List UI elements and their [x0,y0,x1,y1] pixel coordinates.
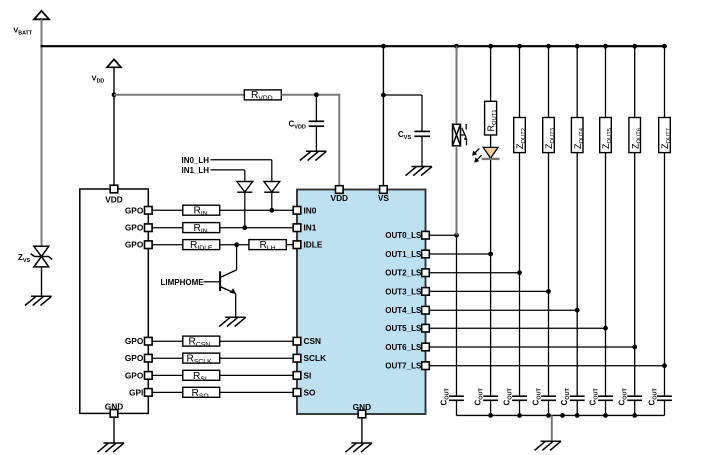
pin MCU VDD [110,185,118,193]
junction branch0 out [454,233,459,238]
lamp load (OUT0) [453,124,461,146]
pin IC IN0 [293,207,301,215]
LED light arrows [472,148,482,162]
pin MCU GPO y227 [145,224,153,232]
pin IC IDLE [293,241,301,249]
wire GPO to RSI [152,374,183,376]
resistor RVDD [244,90,281,100]
pin IC OUT3_LS [422,288,430,296]
svg-text:OUT5_LS: OUT5_LS [385,324,422,333]
svg-text:IDLE: IDLE [304,240,323,250]
junction CVDD tap [314,92,319,97]
resistor RIN y227 [183,223,220,233]
capacitor COUT0 [449,396,464,400]
svg-text:LIMPHOME: LIMPHOME [161,278,205,287]
junction IN1 row [242,225,247,230]
wire OUT0 to branch [429,234,456,236]
load ZOUT5 [600,118,612,153]
supply symbol VDD [107,59,121,67]
pin MCU GPO y341 [145,337,153,345]
transistor Q LIMPHOME [220,270,237,294]
wire branch2 mid [519,153,521,273]
svg-text:IN1_LH: IN1_LH [182,166,210,175]
wire branch1 mid [490,160,492,254]
pin IC OUT7_LS [422,362,430,370]
pin IC OUT5_LS [422,324,430,332]
resistor ROUT1 [485,101,497,135]
junction IDLE/transistor [234,242,239,247]
wire collector up [236,245,238,270]
wire MCU GND down [113,417,115,443]
capacitor CVS [421,95,423,131]
wire bus ground tap [551,415,553,441]
pin IC SO [293,389,301,397]
wire branch2 top [519,46,521,117]
svg-text:GPI: GPI [129,387,143,397]
wire branch6 to cap [634,347,636,396]
pin IC SCLK [293,354,301,362]
junction bottom bus [517,413,522,418]
wire GPO to RSCLK [152,357,183,359]
junction branch2 out [517,270,522,275]
wire GPO to RIN y210 [152,209,183,211]
svg-text:GPO: GPO [125,240,144,250]
wire OUT2 to branch [429,272,519,274]
wire GPO to RIDLE [152,244,183,246]
ground (MCU) [98,443,125,452]
ground (ZVS) [25,296,52,305]
wire D IN1 to IN1 row [244,192,246,228]
pin IC OUT1_LS [422,250,430,258]
svg-text:OUT1_LS: OUT1_LS [385,250,422,259]
wire branch4 top [576,46,578,117]
diode D IN0 [264,182,280,193]
ground (CVDD) [300,151,327,160]
svg-text:OUT4_LS: OUT4_LS [385,306,422,315]
svg-text:VS: VS [378,193,390,203]
svg-text:GND: GND [105,402,123,412]
junction bottom bus [632,413,637,418]
wire VDD down to MCU [113,95,115,186]
pin IC OUT0_LS [422,231,430,239]
pin MCU GPO y244 [145,241,153,249]
junction branch1 out [488,252,493,257]
junction bottom bus [575,413,580,418]
wire branch4 to cap [576,310,578,396]
wire D IN0 to IN0 row [271,192,273,210]
junction bus branch5 [603,44,608,49]
junction bus branch0 [454,44,459,49]
junction branch6 out [632,345,637,350]
wire top supply bus [41,45,667,47]
svg-text:VDD: VDD [105,195,123,205]
resistor RLH [249,240,286,250]
wire branch7 top [664,46,666,117]
svg-text:OUT0_LS: OUT0_LS [385,231,422,240]
junction branch4 out [575,308,580,313]
wire branch0 mid [456,146,458,235]
wire branch7 to cap [664,366,666,397]
wire branch3 to cap [548,291,550,396]
capacitor COUT3 [541,396,556,400]
svg-text:OUT2_LS: OUT2_LS [385,269,422,278]
wire emitter down [235,294,237,318]
junction IN0 row [269,208,274,213]
wire RLH to IC IDLE [286,244,293,246]
wire OUT6 to branch [429,346,634,348]
wire ZVS to ground [41,267,43,296]
svg-text:IN1: IN1 [304,223,317,233]
junction bottom bus gnd [560,413,565,418]
TVS diode ZVS [31,246,53,267]
wire ROUT1 to LED [490,135,492,147]
junction bus VS [381,44,386,49]
ground (Q) [219,317,246,326]
junction bottom bus [603,413,608,418]
svg-text:GPO: GPO [125,353,144,363]
wire OUT4 to branch [429,309,577,311]
lamp annotation arrow [461,124,467,145]
wire GPO to RSO [152,391,183,393]
wire IC GND down [361,418,363,443]
wire VDD arrow stem [113,67,115,95]
wire branch5 to cap [605,328,607,396]
capacitor COUT6 [627,396,642,400]
resistor RIN y210 [183,205,220,215]
svg-text:SCLK: SCLK [304,353,327,363]
svg-text:GPO: GPO [125,370,144,380]
resistor RSCLK [183,353,220,363]
wire branch0 top [456,46,458,124]
wire OUT1 to branch [429,253,490,255]
ground (IC) [345,443,372,452]
resistor RSO [183,387,220,397]
svg-text:OUT7_LS: OUT7_LS [385,362,422,371]
wire RIN to IC y210 [220,209,294,211]
resistor RIDLE [183,240,220,250]
pin MCU GPO y210 [145,207,153,215]
wire base [204,281,220,283]
capacitor COUT1 [483,396,498,400]
wire RIDLE to RLH [220,244,249,246]
IC U1 (driver) [297,190,426,415]
wire OUT3 to branch [429,290,548,292]
LED D OUT1 [483,147,498,158]
wire bottom bus [457,414,665,416]
ground (outputs) [535,441,562,450]
junction bottom bus [546,413,551,418]
wire RSI to IC [220,374,294,376]
junction bus branch7 [662,44,667,49]
junction bus branch2 [517,44,522,49]
junction bottom bus [488,413,493,418]
resistor RSI [183,370,220,380]
capacitor COUT4 [570,396,585,400]
svg-text:GND: GND [353,402,371,412]
wire RSCLK to IC [220,357,294,359]
wire branch5 top [605,46,607,117]
wire IN1_LH horiz [211,169,245,171]
wire VDD rail to RVDD [114,94,244,96]
load ZOUT6 [629,118,641,153]
svg-text:SO: SO [304,387,317,397]
wire branch0 to cap [456,235,458,396]
wire branch6 top [634,46,636,117]
svg-text:OUT3_LS: OUT3_LS [385,287,422,296]
wire GPO to RIN y227 [152,227,183,229]
junction bus branch6 [632,44,637,49]
wire branch6 mid [634,153,636,347]
diode D IN1 [237,182,253,193]
junction bus branch3 [546,44,551,49]
junction CVS tap [381,93,386,98]
wire branch4 mid [576,153,578,311]
wire OUT5 to branch [429,327,605,329]
svg-text:CSN: CSN [304,336,322,346]
junction branch7 out [662,363,667,368]
svg-text:SI: SI [304,370,312,380]
wire RVDD to IC VDD [281,95,339,186]
wire branch7 mid [664,153,666,366]
svg-text:IN0_LH: IN0_LH [182,156,210,165]
resistor RCSN [183,336,220,346]
junction bus branch1 [488,44,493,49]
pin IC OUT6_LS [422,343,430,351]
load ZOUT4 [571,118,583,153]
wire GPO to RCSN [152,340,183,342]
wire IN1_LH down [244,170,246,182]
wire CVS tap horiz [383,94,422,96]
microcontroller box [80,189,149,413]
svg-text:GPO: GPO [125,223,144,233]
pin IC VDD [336,186,344,194]
wire branch3 mid [548,153,550,292]
wire IN0_LH down [271,160,273,182]
svg-text:GPO: GPO [125,205,144,215]
wire VBATT vertical [41,19,43,247]
pin IC CSN [293,337,301,345]
pin MCU GPO y358 [145,354,153,362]
svg-text:IN0: IN0 [304,205,317,215]
wire RIN to IC y227 [220,227,294,229]
pin MCU GND [110,410,118,418]
ground (CVS) [406,167,433,176]
wire RSO to IC [220,391,294,393]
svg-text:OUT6_LS: OUT6_LS [385,343,422,352]
pin IC IN1 [293,224,301,232]
capacitor COUT7 [657,396,672,400]
wire OUT7 to branch [429,365,664,367]
svg-text:VDD: VDD [331,193,349,203]
capacitor COUT2 [512,396,527,400]
pin IC VS [380,186,388,194]
pin IC GND [358,410,366,418]
pin IC SI [293,372,301,380]
capacitor CVDD [315,95,317,121]
wire RCSN to IC [220,340,294,342]
wire branch3 top [548,46,550,117]
capacitor COUT5 [598,396,613,400]
wire IN0_LH horiz [211,159,272,161]
wire branch1 to cap [490,254,492,396]
supply symbol VBATT [34,11,49,19]
wire VS from bus [382,46,384,185]
load ZOUT3 [543,118,555,153]
junction branch3 out [546,289,551,294]
load ZOUT7 [659,118,671,153]
junction branch5 out [603,326,608,331]
pin MCU GPO y375 [145,372,153,380]
junction bus branch4 [575,44,580,49]
pin MCU GPI y392 [145,389,153,397]
pin IC OUT2_LS [422,269,430,277]
load ZOUT2 [514,118,526,153]
pin IC OUT4_LS [422,306,430,314]
wire branch1 top [490,46,492,101]
wire branch5 mid [605,153,607,329]
wire branch2 to cap [519,273,521,397]
junction VDD rail [112,92,117,97]
svg-text:GPO: GPO [125,336,144,346]
